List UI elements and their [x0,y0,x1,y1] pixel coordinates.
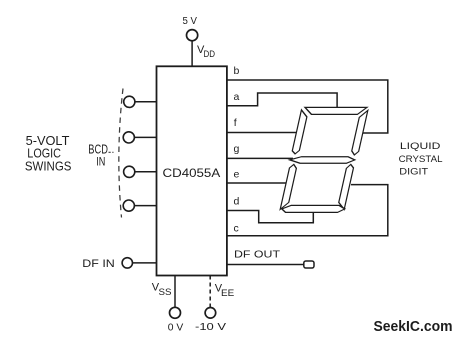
svg-text:DD: DD [204,49,216,59]
svg-text:5 V: 5 V [183,16,198,27]
svg-text:b: b [234,65,240,77]
svg-text:DF IN: DF IN [82,258,115,270]
svg-text:SeekIC.com: SeekIC.com [374,319,453,335]
svg-text:d: d [234,196,240,208]
svg-text:CD4055A: CD4055A [163,168,221,180]
svg-text:LIQUID: LIQUID [400,141,441,152]
svg-text:-10 V: -10 V [195,322,226,333]
svg-text:SWINGS: SWINGS [25,159,72,174]
svg-text:a: a [234,91,240,103]
svg-text:EE: EE [221,288,234,298]
svg-text:IN: IN [96,155,105,169]
svg-text:0 V: 0 V [168,323,184,334]
svg-text:DIGIT: DIGIT [399,167,428,178]
svg-text:CRYSTAL: CRYSTAL [399,154,443,165]
svg-text:SS: SS [159,287,172,297]
svg-text:g: g [234,143,240,155]
svg-text:c: c [234,223,239,235]
svg-text:f: f [234,117,237,129]
svg-text:e: e [234,169,240,181]
svg-text:DF OUT: DF OUT [234,250,280,261]
